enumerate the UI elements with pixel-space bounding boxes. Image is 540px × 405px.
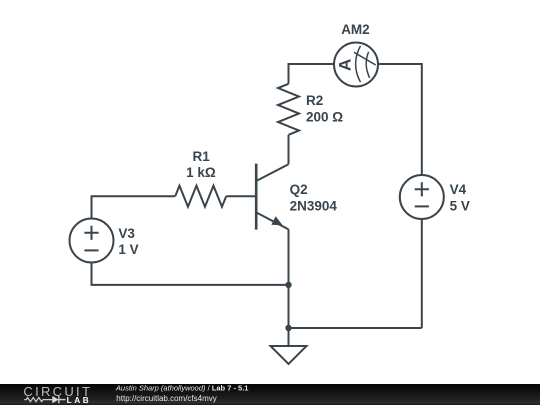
junction node dot (ground node): [285, 325, 291, 331]
svg-text:200 Ω: 200 Ω: [306, 110, 343, 125]
voltage source V3 circle: [70, 219, 114, 263]
V4 plus sign: [415, 182, 429, 196]
wire: ammeter right to V4 top: [378, 64, 422, 175]
voltage source V4 circle: [400, 175, 444, 219]
svg-text:V4: V4: [450, 182, 467, 197]
wire: R1 to base: [226, 195, 255, 197]
svg-text:5 V: 5 V: [450, 199, 470, 214]
wire: V3 top to R1: [92, 196, 176, 218]
wire: R2 top to ammeter left: [289, 64, 335, 84]
V3 minus sign: [84, 249, 98, 251]
logo wire with resistor zigzag: [24, 398, 52, 402]
resistor R1 (horizontal zigzag): [175, 186, 226, 207]
svg-text:2N3904: 2N3904: [290, 198, 338, 213]
wire: V4 bottom down: [421, 219, 423, 328]
svg-text:V3: V3: [118, 226, 135, 241]
svg-text:A: A: [336, 59, 355, 71]
transistor Q2 collector diagonal: [256, 164, 288, 181]
ammeter meter arcs and needle: [354, 46, 376, 82]
wire: V3 bottom return: [92, 263, 289, 285]
footer bar: [0, 384, 540, 405]
logo diode: [52, 396, 58, 403]
transistor Q2 emitter diagonal: [256, 212, 288, 229]
wire: R2 bottom to collector corner: [288, 135, 290, 164]
svg-text:1 V: 1 V: [118, 242, 138, 257]
junction node dot (emitter/V3 return): [285, 282, 291, 288]
V4 minus sign: [415, 205, 429, 207]
wire: ground node to ground symbol stem: [288, 328, 290, 346]
svg-text:1 kΩ: 1 kΩ: [186, 165, 216, 180]
wire: bottom right to ground node: [289, 327, 422, 329]
ground symbol: [271, 346, 307, 364]
svg-text:R2: R2: [306, 93, 323, 108]
V3 plus sign: [84, 226, 98, 240]
svg-text:AM2: AM2: [341, 22, 370, 37]
wire: emitter corner down to ground node: [288, 229, 290, 328]
svg-text:Q2: Q2: [290, 182, 308, 197]
ammeter AM2 circle: [334, 43, 378, 87]
transistor Q2 emitter arrow: [271, 216, 282, 225]
resistor R2 (vertical zigzag): [278, 84, 299, 135]
svg-text:R1: R1: [193, 149, 211, 164]
transistor Q2 base bar: [255, 164, 258, 230]
